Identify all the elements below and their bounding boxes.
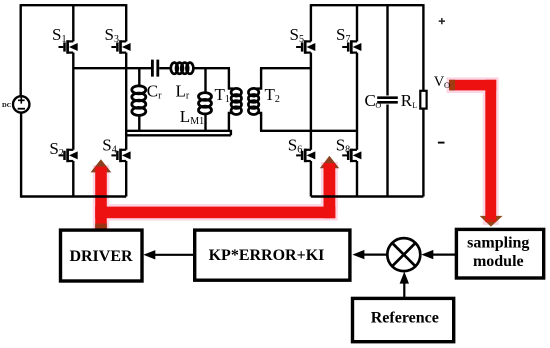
label + output terminal: [439, 18, 445, 24]
wire: Lr to T1 top: [193, 67, 230, 69]
wire: DC source leg lower: [20, 113, 22, 198]
wire: T1 primary bottom lead: [229, 113, 234, 131]
transformer winding T1: [231, 88, 241, 114]
wire: tank bottom rail: [126, 130, 230, 132]
wire: tank bottom rail second line: [126, 130, 231, 136]
wire: Cr to Lr: [159, 67, 171, 69]
svg-text:O: O: [444, 80, 450, 90]
wire: shunt coil to bottom rail: [138, 114, 140, 131]
wire: T2 secondary bottom to right bridge: [260, 130, 357, 132]
block Reference: [353, 298, 454, 341]
wire: LM1 junction drop: [204, 67, 206, 93]
red halo glow: [93, 77, 499, 231]
inductor Lr: [171, 63, 194, 74]
transistor S6: [296, 149, 315, 163]
arrow sampling module to multiplier: [433, 254, 455, 256]
wire: Co leg upper: [386, 4, 388, 95]
wire: right bridge bottom rail: [311, 195, 424, 197]
wire: S3/S4 leg segment bottom: [125, 161, 127, 197]
arrow KP block to DRIVER: [154, 254, 194, 256]
multiplier node: [387, 238, 420, 271]
block KP*ERROR+KI: [195, 230, 350, 280]
wire: S3/S4 leg segment middle: [125, 53, 127, 150]
resistor RL: [420, 91, 426, 109]
svg-text:R: R: [401, 91, 413, 110]
inductor LM1: [199, 93, 212, 114]
svg-text:DRIVER: DRIVER: [69, 248, 133, 265]
red arrow head (to S4 gate drive): [91, 159, 112, 172]
wire: S3/S4 leg segment top: [125, 4, 127, 41]
wire: S5/S6 leg segment top: [310, 4, 312, 41]
capacitor Cr: [152, 60, 157, 77]
label - output terminal: [438, 142, 445, 144]
wire: node A to Cr: [73, 67, 151, 69]
block DRIVER: [61, 230, 143, 281]
red arrow head (into sampling module): [480, 216, 503, 227]
red arrow shaft (bus to S8): [324, 163, 336, 218]
arrow Reference to multiplier: [403, 283, 405, 298]
red arrow head (to S8 gate drive): [320, 156, 339, 169]
red horizontal bus (DRIVER to S8 branch): [95, 207, 335, 219]
svg-text:DC: DC: [2, 102, 12, 109]
transistor S3: [111, 40, 130, 54]
wire: S1/S2 leg segment top: [72, 4, 74, 41]
wire: left bridge top rail: [21, 4, 127, 6]
wire: T2 secondary top lead: [256, 68, 261, 88]
transistor S2: [59, 149, 78, 163]
svg-text:module: module: [473, 253, 524, 270]
wire: S7/S8 leg segment middle: [356, 53, 358, 150]
transistor S4: [111, 149, 130, 163]
wire: T2 secondary bottom lead: [256, 113, 261, 131]
wire: S1/S2 leg segment middle: [72, 53, 74, 150]
svg-text:Reference: Reference: [371, 310, 439, 327]
wire: LM1 to bottom rail: [204, 113, 206, 131]
wire: S7/S8 leg segment bottom: [356, 161, 358, 197]
capacitor Co: [377, 98, 398, 103]
transistor S8: [342, 149, 361, 163]
transistor S5: [296, 40, 315, 54]
svg-text:L: L: [412, 101, 417, 110]
DC source V1: [13, 96, 29, 112]
arrow multiplier to KP block: [364, 254, 387, 256]
wire: S7/S8 leg segment top: [356, 4, 358, 41]
wire: Co leg lower: [386, 105, 388, 197]
wire: RL leg upper: [422, 4, 424, 91]
red arrow shaft (Vo to sampling module): [485, 80, 496, 222]
transistor S7: [342, 40, 361, 54]
wire: T2 secondary top to right bridge: [260, 67, 311, 69]
wire: S5/S6 leg segment bottom: [310, 161, 312, 197]
transistor S1: [59, 40, 78, 54]
wire: shunt junction drop: [138, 67, 140, 86]
wire: DC source leg upper: [20, 4, 22, 96]
wire: right bridge top rail: [311, 4, 424, 6]
transformer winding T2: [248, 88, 258, 114]
red wire from Vo dark start cap: [449, 80, 455, 91]
wire: S5/S6 leg segment middle: [310, 53, 312, 150]
wire: S1/S2 leg segment bottom: [72, 161, 74, 197]
svg-text:sampling: sampling: [467, 234, 529, 251]
wire: left bridge bottom rail: [21, 195, 127, 197]
svg-text:KP*ERROR+KI: KP*ERROR+KI: [209, 247, 325, 264]
block sampling module: [456, 229, 543, 278]
wire: T1 primary top lead: [229, 68, 234, 88]
svg-text:C: C: [365, 91, 376, 110]
red arrow shaft (DRIVER to S4): [95, 167, 107, 230]
inductor (shunt coil at node A): [132, 86, 146, 116]
svg-text:O: O: [375, 101, 381, 110]
red wire from Vo (horizontal): [449, 80, 496, 91]
wire: RL leg lower: [422, 109, 424, 197]
